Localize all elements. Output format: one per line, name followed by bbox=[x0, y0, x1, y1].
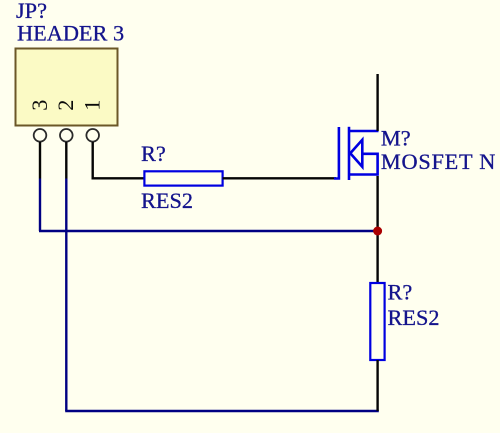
mosfet M1 body arrow bbox=[350, 140, 362, 167]
resistor R1 body bbox=[144, 171, 222, 185]
svg-text:R?: R? bbox=[141, 141, 166, 166]
wire source down through junction bbox=[376, 176, 378, 283]
pin 2 circle bbox=[60, 129, 73, 142]
wire node horizontal to junction bbox=[39, 230, 375, 232]
svg-text:2: 2 bbox=[53, 100, 78, 111]
mosfet M1 body lead bbox=[362, 154, 377, 176]
pin 3 lead bbox=[39, 142, 41, 179]
wire bottom horizontal bbox=[65, 410, 379, 412]
svg-text:MOSFET N: MOSFET N bbox=[381, 149, 496, 174]
resistor R2 body bbox=[370, 283, 384, 360]
mosfet M1 source lead bbox=[349, 173, 378, 176]
svg-text:M?: M? bbox=[381, 126, 411, 151]
wire pin3 vertical bbox=[39, 179, 41, 232]
connector JP1 body bbox=[16, 49, 118, 126]
mosfet M1 drain lead bbox=[349, 130, 379, 133]
mosfet M1 gate lead bbox=[334, 127, 339, 179]
junction dot bbox=[373, 227, 382, 236]
pin 1 lead bbox=[93, 142, 145, 178]
pin 2 lead bbox=[65, 142, 67, 179]
svg-text:RES2: RES2 bbox=[388, 305, 440, 330]
svg-text:R?: R? bbox=[388, 279, 413, 304]
mosfet M1 channel bar bbox=[348, 127, 351, 180]
wire pin2 vertical bbox=[65, 179, 67, 412]
svg-text:HEADER 3: HEADER 3 bbox=[17, 20, 124, 45]
wire R2 bottom lead bbox=[376, 360, 378, 411]
svg-text:RES2: RES2 bbox=[141, 188, 193, 213]
pin 3 circle bbox=[34, 129, 47, 142]
wire drain stub top bbox=[376, 74, 378, 131]
pin 1 circle bbox=[86, 129, 99, 142]
svg-text:3: 3 bbox=[27, 100, 52, 111]
svg-text:1: 1 bbox=[80, 100, 105, 111]
wire R1 to gate bbox=[223, 177, 336, 179]
